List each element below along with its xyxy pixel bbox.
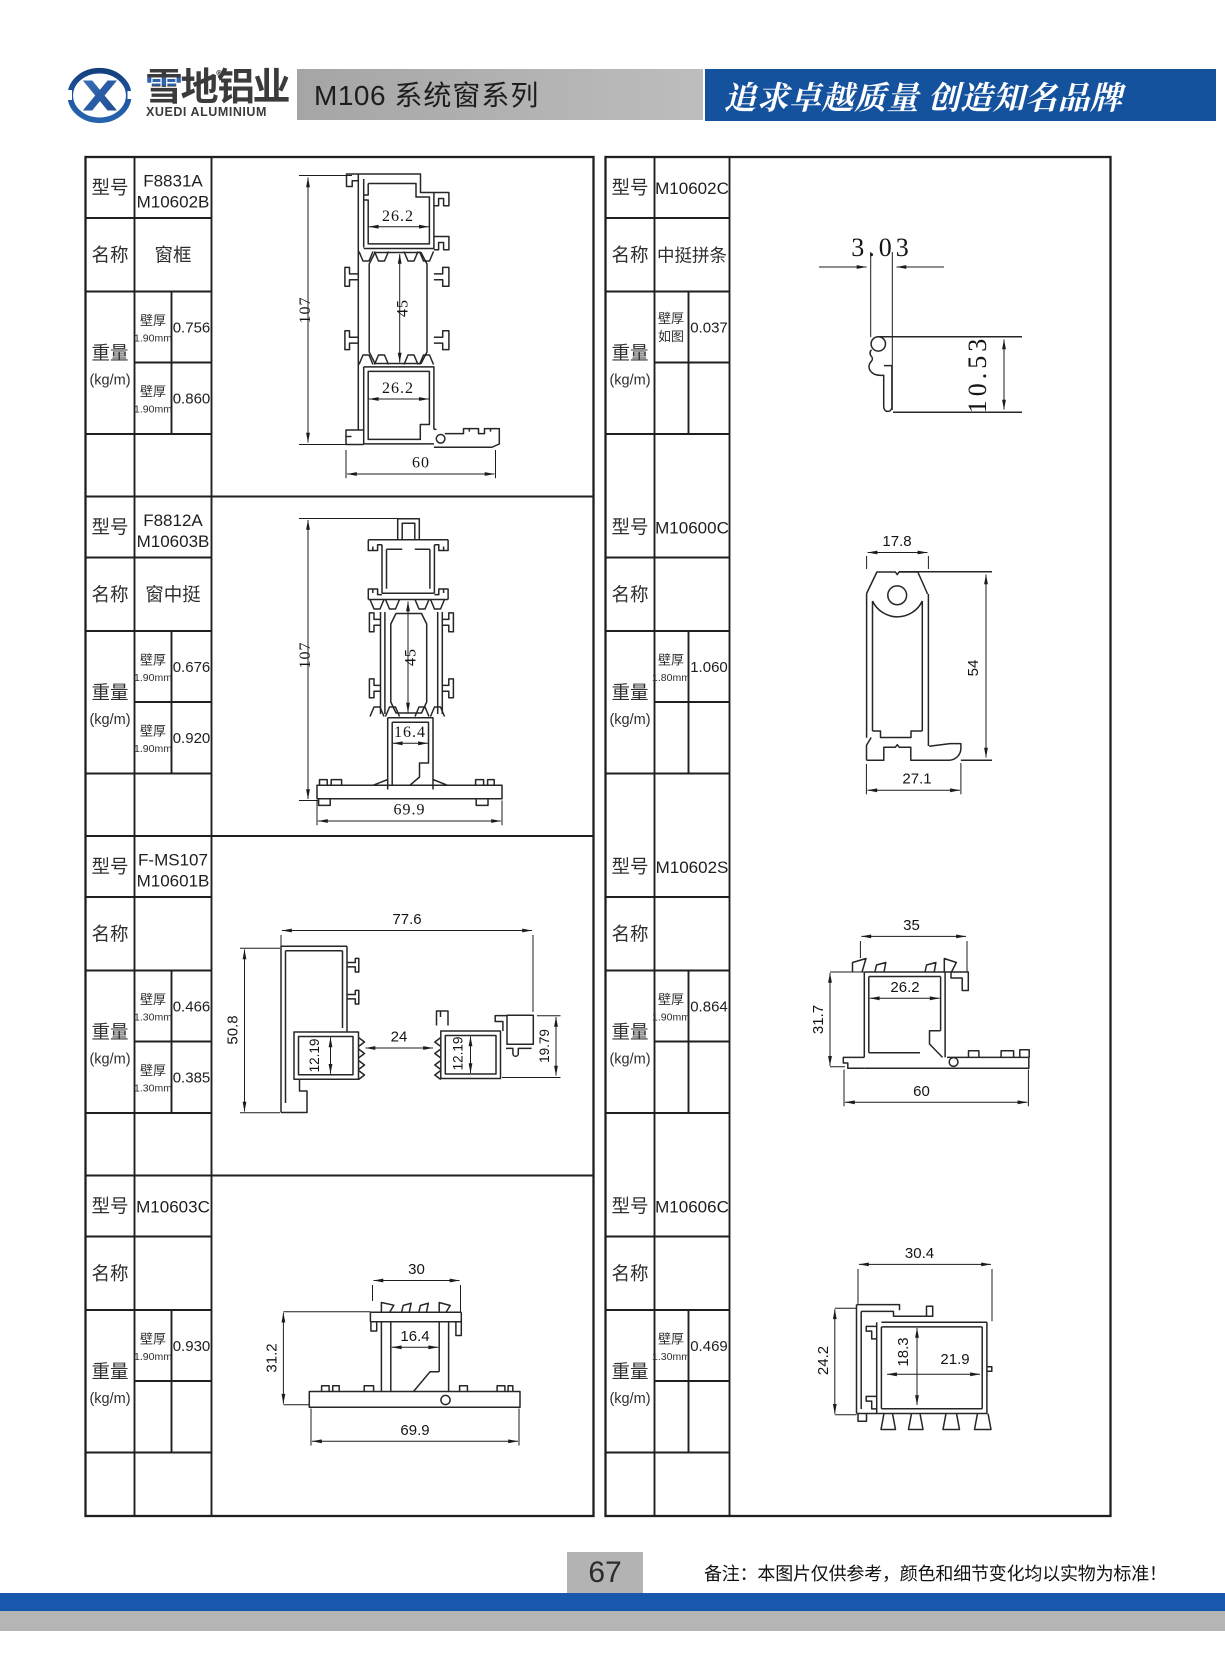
footer: blue bar xyxy=(0,1593,1225,1611)
svg-text:重量: 重量 xyxy=(91,1019,128,1045)
L2 bottom flange with end hooks xyxy=(368,589,448,600)
R3 rail circle hook xyxy=(949,1058,958,1067)
svg-text:10.53: 10.53 xyxy=(963,335,992,414)
L3 dim 12.19 right xyxy=(470,1037,472,1074)
svg-text:M10602C: M10602C xyxy=(655,179,729,198)
svg-text:21.9: 21.9 xyxy=(940,1351,969,1368)
svg-text:1.80mm: 1.80mm xyxy=(652,672,690,684)
R2 cavity arc and walls xyxy=(873,601,923,731)
svg-text:1.90mm: 1.90mm xyxy=(134,672,172,684)
L1 dim 107 xyxy=(307,178,309,443)
svg-text:77.6: 77.6 xyxy=(392,911,421,928)
svg-text:(kg/m): (kg/m) xyxy=(609,1052,650,1068)
L2 channel cavity xyxy=(391,614,427,714)
right table block3 text 型号 M10602S xyxy=(609,853,728,1068)
L3 left glazing box xyxy=(294,1032,359,1079)
svg-text:(kg/m): (kg/m) xyxy=(609,712,650,728)
L4 top tabs xyxy=(381,1303,450,1313)
L2 right T-tab 1 xyxy=(442,613,453,632)
svg-text:0.469: 0.469 xyxy=(690,1338,728,1355)
svg-text:壁厚: 壁厚 xyxy=(140,381,166,400)
R2 cavity tray bottom xyxy=(873,731,923,738)
svg-text:1.90mm: 1.90mm xyxy=(134,333,172,345)
L2 dim 69.9 xyxy=(318,820,501,822)
svg-text:0.466: 0.466 xyxy=(173,999,211,1016)
svg-text:1.90mm: 1.90mm xyxy=(652,1012,690,1024)
svg-text:1.30mm: 1.30mm xyxy=(652,1351,690,1363)
svg-text:0.920: 0.920 xyxy=(173,730,211,747)
drawing R4 M10606C profile xyxy=(815,1245,992,1430)
drawing R3 M10602S profile xyxy=(810,917,1029,1106)
L1 left wall xyxy=(358,174,363,430)
R1 dim 10.53 xyxy=(1003,340,1005,410)
svg-text:(kg/m): (kg/m) xyxy=(609,1391,650,1407)
L1 bottom box inner with step xyxy=(368,371,429,439)
svg-text:型号: 型号 xyxy=(91,853,128,879)
svg-text:壁厚: 壁厚 xyxy=(140,310,166,329)
R3 inner step xyxy=(869,1031,943,1058)
L4 base circle hook xyxy=(441,1395,450,1404)
L2 teeth row bottom xyxy=(370,707,445,717)
svg-text:壁厚: 壁厚 xyxy=(140,721,166,740)
svg-text:M10600C: M10600C xyxy=(655,519,729,538)
R3 top tabs xyxy=(853,959,957,973)
svg-text:名称: 名称 xyxy=(91,921,128,947)
svg-text:35: 35 xyxy=(903,917,920,934)
svg-text:M10602B: M10602B xyxy=(137,193,210,212)
L2 top chimney tab xyxy=(398,519,420,540)
R3 dim 31.7 xyxy=(829,973,831,1066)
R2 bottom outline xyxy=(867,738,961,761)
L4 dim 31.2 xyxy=(282,1313,284,1404)
svg-text:17.8: 17.8 xyxy=(882,533,911,550)
L1 bottom-left foot xyxy=(346,430,364,445)
L4 step diagonal xyxy=(414,1372,440,1392)
left table block4 text 型号 M10603C xyxy=(89,1193,210,1408)
L1 right hook 2 xyxy=(434,237,449,250)
svg-text:0.864: 0.864 xyxy=(690,999,728,1016)
drawing R2 M10600C profile xyxy=(866,533,992,794)
svg-text:1.90mm: 1.90mm xyxy=(134,743,172,755)
L2 channel rails xyxy=(381,612,443,714)
R3 box xyxy=(864,972,951,1057)
L3 left piece top and wall xyxy=(281,946,347,1112)
svg-text:名称: 名称 xyxy=(91,581,128,607)
right table block1 text 型号 M10602C 中挺拼条 xyxy=(609,174,728,389)
L3 dim 24 xyxy=(366,1047,434,1049)
L2 left T-tab 2 xyxy=(369,679,380,698)
svg-text:重量: 重量 xyxy=(91,1358,128,1384)
left table block1 text 型号 F8831A M10602B 窗框 xyxy=(89,172,210,416)
L2 upper box xyxy=(382,545,434,594)
L1 dim 45 xyxy=(399,254,401,363)
header: title text M106 系统窗系列 xyxy=(314,69,539,120)
svg-text:重量: 重量 xyxy=(91,340,128,366)
R2 dim 54 xyxy=(899,572,992,761)
svg-text:19.79: 19.79 xyxy=(537,1029,552,1063)
drawing L1 窗框 profile F8831A xyxy=(297,174,499,478)
svg-text:(kg/m): (kg/m) xyxy=(89,373,130,389)
svg-text:F8812A: F8812A xyxy=(143,511,203,530)
svg-text:M10606C: M10606C xyxy=(655,1198,729,1217)
R3 dim 26.2 xyxy=(870,997,940,999)
svg-text:名称: 名称 xyxy=(611,581,648,607)
L1 dim 26.2 top xyxy=(369,226,429,228)
L4 channel walls xyxy=(381,1322,448,1392)
svg-text:型号: 型号 xyxy=(611,174,648,200)
L1 middle channel cavity xyxy=(369,253,427,364)
L4 dim 69.9 xyxy=(312,1440,518,1442)
L3 right step piece xyxy=(495,1015,533,1056)
svg-text:31.7: 31.7 xyxy=(810,1005,827,1034)
svg-text:F-MS107: F-MS107 xyxy=(138,851,208,870)
R4 dim 24.2 xyxy=(834,1309,836,1414)
L3 right box sawtooth xyxy=(435,1038,441,1080)
header: slogan text xyxy=(724,69,1123,121)
svg-text:45: 45 xyxy=(395,299,412,317)
svg-text:窗中挺: 窗中挺 xyxy=(145,581,201,607)
svg-text:壁厚: 壁厚 xyxy=(140,989,166,1008)
L1 bottom-right rail with hooks xyxy=(434,429,499,448)
L2 base feet xyxy=(319,799,488,806)
svg-text:60: 60 xyxy=(412,455,430,472)
svg-text:型号: 型号 xyxy=(611,853,648,879)
L2 right T-tab 2 xyxy=(442,679,453,698)
L1 dim 26.2 bottom xyxy=(369,398,429,400)
svg-text:重量: 重量 xyxy=(611,679,648,705)
R1 reference lines xyxy=(878,337,1023,413)
R3 bottom rail xyxy=(864,1050,1029,1069)
left table block2 text 型号 F8812A M10603B 窗中挺 xyxy=(89,511,210,755)
L4 top bar xyxy=(370,1312,461,1335)
svg-text:26.2: 26.2 xyxy=(890,979,919,996)
svg-text:1.30mm: 1.30mm xyxy=(134,1083,172,1095)
svg-text:(kg/m): (kg/m) xyxy=(609,373,650,389)
svg-text:名称: 名称 xyxy=(91,242,128,268)
svg-text:型号: 型号 xyxy=(611,514,648,540)
header: gray title bar xyxy=(297,69,703,120)
R2 bolt circle xyxy=(888,586,907,605)
header: blue slogan bar xyxy=(705,69,1216,121)
L1 top box outer with step xyxy=(358,174,434,249)
L4 base top hooks xyxy=(322,1386,513,1392)
L2 top flange with end hooks xyxy=(368,540,448,551)
svg-text:24: 24 xyxy=(391,1029,408,1046)
svg-text:30: 30 xyxy=(408,1261,425,1278)
L1 right T-tab 1 xyxy=(434,267,449,286)
footer: page number box xyxy=(567,1552,643,1593)
L1 right T-tab 2 xyxy=(434,331,449,350)
L2 teeth row top xyxy=(370,600,445,610)
L1 rail circle hook xyxy=(436,435,445,444)
svg-text:重量: 重量 xyxy=(611,1358,648,1384)
L3 dim 19.79 xyxy=(555,1017,557,1076)
L4 base bar xyxy=(309,1392,520,1408)
drawing R1 M10602C clip xyxy=(819,233,1022,413)
svg-text:壁厚: 壁厚 xyxy=(658,308,684,327)
right table grid xyxy=(606,157,1111,1516)
L3 left box sawtooth xyxy=(359,1038,365,1080)
R1 clip circle bulge xyxy=(871,337,885,351)
header: XUEDI ALUMINIUM xyxy=(146,105,346,119)
svg-text:名称: 名称 xyxy=(611,1260,648,1286)
svg-text:F8831A: F8831A xyxy=(143,172,203,191)
svg-text:0.860: 0.860 xyxy=(173,391,211,408)
L1 top-left tab xyxy=(347,174,359,187)
svg-text:45: 45 xyxy=(403,648,420,666)
svg-text:M10601B: M10601B xyxy=(137,872,210,891)
L4 dim 30 xyxy=(374,1280,460,1282)
svg-text:型号: 型号 xyxy=(91,174,128,200)
R4 left channel clips xyxy=(866,1326,877,1409)
L3 right glazing box xyxy=(441,1031,501,1079)
L1 left T-tab 1 xyxy=(345,267,358,286)
svg-text:1.30mm: 1.30mm xyxy=(134,1012,172,1024)
svg-text:名称: 名称 xyxy=(611,242,648,268)
svg-text:壁厚: 壁厚 xyxy=(140,1060,166,1079)
L3 dim 50.8 xyxy=(244,950,246,1112)
R1 clip body xyxy=(869,350,892,376)
svg-text:如图: 如图 xyxy=(658,326,684,345)
svg-text:31.2: 31.2 xyxy=(264,1343,281,1372)
R4 left wall xyxy=(857,1305,862,1414)
svg-text:0.676: 0.676 xyxy=(173,659,211,676)
drawing L3 F-MS107 assembly xyxy=(225,911,561,1113)
L1 teeth row bottom xyxy=(359,355,434,365)
svg-text:30.4: 30.4 xyxy=(905,1245,934,1262)
R3 right arm with hook xyxy=(951,972,968,991)
L3 dim 12.19 left xyxy=(330,1038,332,1074)
svg-text:0.930: 0.930 xyxy=(173,1338,211,1355)
svg-text:26.2: 26.2 xyxy=(382,380,414,397)
svg-text:107: 107 xyxy=(297,642,314,669)
svg-text:M10603B: M10603B xyxy=(137,532,210,551)
svg-text:重量: 重量 xyxy=(611,1019,648,1045)
footer: gray bar xyxy=(0,1611,1225,1631)
L1 right arm hook top xyxy=(434,193,449,206)
R3 bottom-left foot xyxy=(843,1057,864,1068)
L3 left piece rail with hooks xyxy=(343,946,359,1032)
L1 top box inner xyxy=(364,184,430,244)
svg-text:16.4: 16.4 xyxy=(394,724,426,741)
svg-text:壁厚: 壁厚 xyxy=(658,1329,684,1348)
R4 dim 18.3 xyxy=(916,1328,918,1405)
L3 left piece foot xyxy=(281,1079,307,1112)
svg-text:名称: 名称 xyxy=(611,921,648,947)
L1 left T-tab 2 xyxy=(345,331,358,350)
left table block3 text 型号 F-MS107 M10601B xyxy=(89,851,210,1095)
svg-text:24.2: 24.2 xyxy=(815,1346,832,1375)
svg-text:1.90mm: 1.90mm xyxy=(134,1351,172,1363)
svg-text:1.90mm: 1.90mm xyxy=(134,404,172,416)
R1 clip stem xyxy=(884,366,892,412)
svg-text:12.19: 12.19 xyxy=(451,1037,466,1071)
svg-text:69.9: 69.9 xyxy=(394,802,426,819)
R4 main box xyxy=(857,1322,992,1413)
svg-text:69.9: 69.9 xyxy=(400,1422,429,1439)
svg-text:18.3: 18.3 xyxy=(895,1337,912,1366)
svg-text:M10603C: M10603C xyxy=(136,1198,210,1217)
svg-text:26.2: 26.2 xyxy=(382,208,414,225)
L2 bottom box xyxy=(388,718,433,790)
svg-text:名称: 名称 xyxy=(91,1260,128,1286)
right table block4 text 型号 M10606C xyxy=(609,1193,728,1408)
svg-text:60: 60 xyxy=(913,1083,930,1100)
R2 outer walls xyxy=(867,594,929,747)
L1 dim 60 xyxy=(347,473,495,475)
header: company name 雪地铝业 xyxy=(145,57,405,95)
svg-text:壁厚: 壁厚 xyxy=(658,650,684,669)
svg-text:0.756: 0.756 xyxy=(173,320,211,337)
svg-text:1.060: 1.060 xyxy=(690,659,728,676)
svg-text:型号: 型号 xyxy=(611,1193,648,1219)
svg-text:型号: 型号 xyxy=(91,1193,128,1219)
L3 right piece top tab xyxy=(437,1011,449,1026)
svg-text:50.8: 50.8 xyxy=(225,1015,242,1044)
svg-text:12.19: 12.19 xyxy=(307,1039,322,1073)
L4 dim 16.4 xyxy=(392,1346,438,1348)
L2 dim 16.4 xyxy=(393,742,428,744)
svg-text:壁厚: 壁厚 xyxy=(658,989,684,1008)
L1 teeth row top xyxy=(359,252,434,262)
footer: note text xyxy=(704,1560,1167,1586)
svg-text:(kg/m): (kg/m) xyxy=(89,712,130,728)
svg-text:M10602S: M10602S xyxy=(656,858,729,877)
svg-text:0.385: 0.385 xyxy=(173,1070,211,1087)
svg-text:27.1: 27.1 xyxy=(902,771,931,788)
R4 bottom feet xyxy=(881,1414,991,1430)
svg-text:壁厚: 壁厚 xyxy=(140,1329,166,1348)
L2 dim 107 xyxy=(307,520,309,799)
right table block2 text 型号 M10600C xyxy=(609,514,728,729)
svg-text:重量: 重量 xyxy=(91,679,128,705)
svg-text:壁厚: 壁厚 xyxy=(140,650,166,669)
R3 dim 60 xyxy=(845,1101,1027,1103)
R4 left small square foot xyxy=(858,1414,867,1422)
svg-text:54: 54 xyxy=(965,660,982,677)
svg-text:型号: 型号 xyxy=(91,514,128,540)
svg-text:107: 107 xyxy=(297,297,314,324)
L2 base top hooks xyxy=(320,780,495,786)
L3 dim 77.6 xyxy=(282,930,532,932)
L2 left T-tab 1 xyxy=(369,613,380,632)
svg-text:16.4: 16.4 xyxy=(400,1328,429,1345)
header: company logo oval with X xyxy=(66,66,134,126)
R4 top bar with hook xyxy=(857,1305,933,1317)
svg-text:0.037: 0.037 xyxy=(690,320,728,337)
drawing L2 窗中挺 profile F8812A xyxy=(297,519,502,826)
L2 dim 45 xyxy=(407,602,409,713)
svg-text:窗框: 窗框 xyxy=(154,242,191,268)
L1 bottom box outer xyxy=(364,367,434,444)
svg-text:重量: 重量 xyxy=(611,340,648,366)
R2 top trapezoid xyxy=(867,572,928,594)
drawing L4 M10603C profile xyxy=(264,1261,521,1446)
svg-text:中挺拼条: 中挺拼条 xyxy=(657,243,727,268)
svg-text:(kg/m): (kg/m) xyxy=(89,1391,130,1407)
svg-text:(kg/m): (kg/m) xyxy=(89,1052,130,1068)
svg-text:3.03: 3.03 xyxy=(851,233,913,262)
left table grid xyxy=(86,157,594,1516)
L2 base bar xyxy=(317,780,502,799)
